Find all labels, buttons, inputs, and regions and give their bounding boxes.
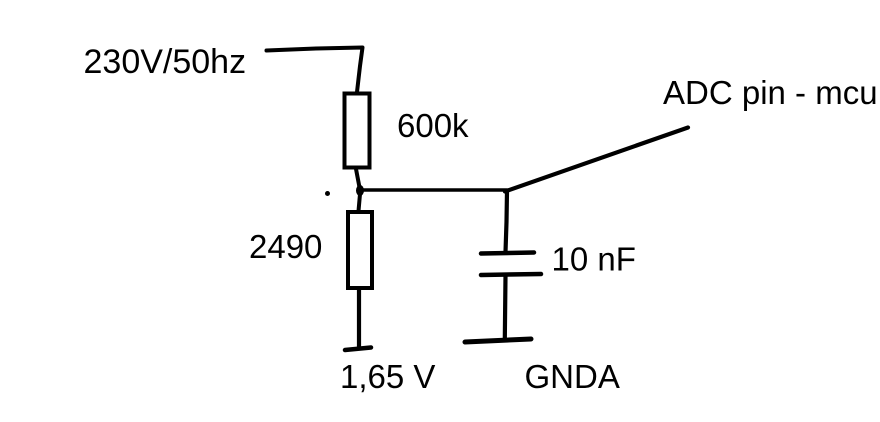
svg-text:2490: 2490 [249,228,322,265]
capacitor C1 bottom plate [481,274,541,275]
resistor R1 600k [345,94,370,168]
terminal bar at 1.65V node [345,348,371,351]
resistor R2 2490 [348,212,372,288]
wire junction to resistor R2 top [359,194,361,211]
wire from 230V source to resistor R1 top [267,48,363,93]
svg-text:600k: 600k [397,107,469,144]
stray dot mark [325,191,330,196]
wire R1 bottom to junction node [356,169,360,190]
ground GNDA bar [465,339,531,342]
svg-text:ADC pin - mcu: ADC pin - mcu [663,74,878,111]
svg-text:GNDA: GNDA [525,358,620,395]
resistor R2 bottom lead [357,290,361,348]
capacitor C1 bottom lead [503,276,508,340]
wire to ADC pin (diagonal) [505,128,688,192]
svg-text:1,65 V: 1,65 V [340,358,435,395]
svg-text:10 nF: 10 nF [552,241,636,278]
svg-text:230V/50hz: 230V/50hz [84,43,247,81]
wire junction to capacitor C1 top [360,188,507,192]
capacitor C1 top lead [506,191,508,252]
capacitor C1 top plate [481,253,534,254]
junction node dot [356,185,364,196]
